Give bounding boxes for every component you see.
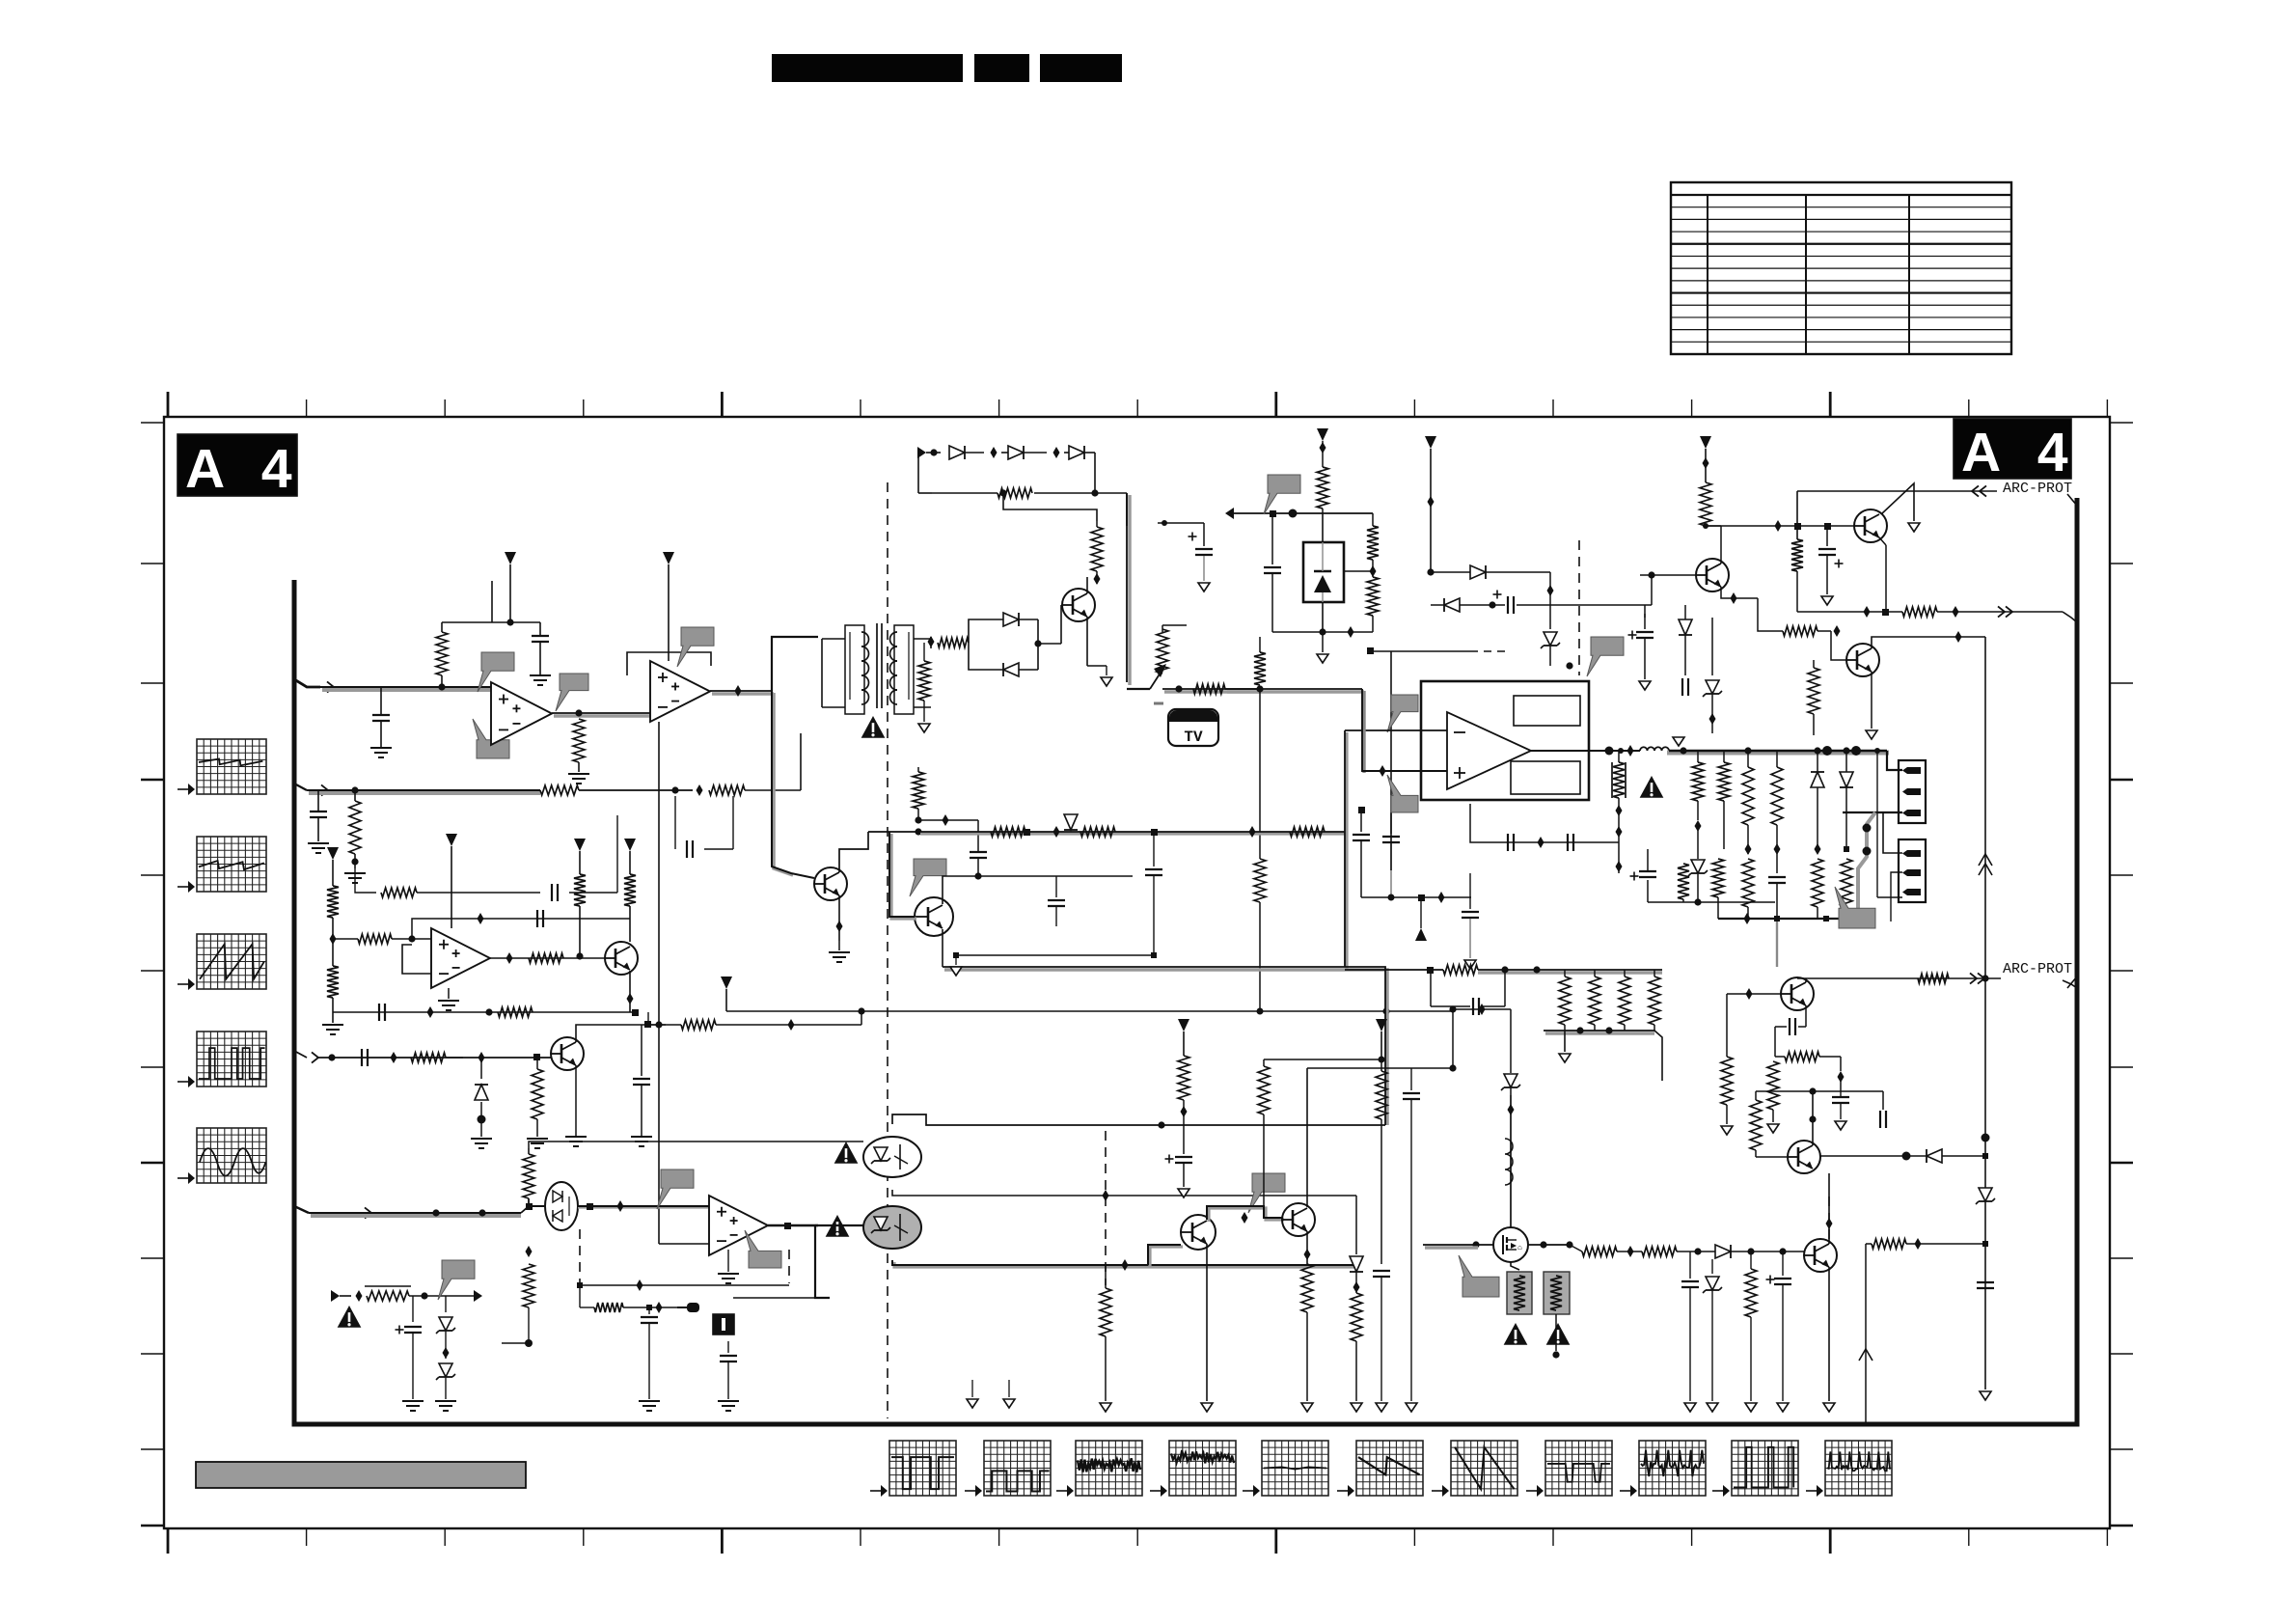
signal ground C19 [1639, 681, 1651, 690]
main output bus [1667, 746, 1889, 756]
resistor R19 horizontal [938, 638, 969, 647]
off-page arrow P3 [327, 847, 339, 886]
wire feedback top loop [442, 581, 540, 635]
capacitor C26 polar [1766, 1248, 1792, 1401]
wire input bus 3 [318, 1057, 551, 1059]
junction P7 net [1489, 601, 1495, 608]
junction U1A out [575, 709, 582, 716]
wire fb sub 2 [439, 815, 617, 901]
ic U4 triangle [1447, 712, 1531, 789]
wire left col [1428, 994, 1453, 1009]
wire q14 base [1727, 988, 1781, 1000]
zener box DZ1 [1303, 513, 1344, 602]
schematic thick border [294, 498, 2077, 1424]
connector X1 [1899, 760, 1926, 823]
signal ground C22 [1376, 1403, 1387, 1412]
title redaction bar 3 [1040, 54, 1122, 82]
waveform scope box W5 [178, 1128, 266, 1184]
warning triangle WT5 [826, 1215, 850, 1237]
flag F15 [1459, 1255, 1499, 1297]
resistor R51 horizontal [1617, 1247, 1677, 1256]
wire C12 tap [1158, 520, 1167, 526]
wire Q9 collector [1207, 1206, 1284, 1224]
wire zener box right [1344, 570, 1373, 572]
signal ground Q3 [1101, 666, 1112, 686]
waveform scope box W3 [178, 934, 266, 990]
resistor R26a [1367, 513, 1379, 567]
ic box U4 [1421, 681, 1589, 800]
wire mid row2 [943, 967, 1189, 970]
wire Q3 emitter [1087, 617, 1107, 666]
wire to I label [677, 1303, 699, 1312]
signal ground R20 [918, 724, 930, 732]
waveform scope box B7 [1432, 1441, 1517, 1497]
wire mid long 1048 [726, 1007, 1453, 1014]
wire acc row [918, 832, 1347, 834]
wire down long [658, 722, 660, 1244]
wire opto1 bottom [892, 1190, 1356, 1201]
ground R7 [322, 1025, 343, 1034]
resistor R29b horizontal [1290, 827, 1325, 837]
zener D22 [1976, 1188, 1995, 1204]
waveform scope box B5 [1243, 1441, 1328, 1497]
resistor R52 [1745, 1252, 1757, 1401]
wire Q14 collector [1805, 978, 1807, 982]
node diode chain entry [917, 447, 941, 458]
wire U4 in minus [1345, 729, 1447, 731]
wire Q6 emitter [1879, 537, 1886, 612]
resistor R39 [1808, 660, 1819, 735]
tv symbol [1168, 709, 1218, 746]
diode D5 [1001, 446, 1060, 459]
transformer TR3 [1544, 1272, 1570, 1314]
wire arc right [1970, 973, 2077, 988]
resistor R15 [523, 1148, 534, 1198]
wire arc line [1797, 975, 2001, 981]
wire Q4 c loop [868, 828, 922, 835]
flag F9 [910, 859, 946, 896]
resistor R44 [1351, 1293, 1362, 1401]
wire low rail drop [1630, 849, 1725, 919]
wire arc res [1918, 974, 1949, 983]
capacitor C16 polar [1493, 591, 1583, 615]
signal ground DZ1 [1317, 654, 1328, 663]
dash link opto [579, 1229, 581, 1283]
wire right col 2058 [1982, 978, 1990, 1389]
wire ARC-PROT top [1797, 485, 1997, 496]
resistor R21 [1091, 521, 1103, 584]
off-page arrow P1 [505, 552, 516, 626]
diode D19 [1715, 1245, 1758, 1258]
signal ground C12 [1198, 583, 1210, 591]
transistor Q13 [1788, 1141, 1820, 1173]
wire U2 minus loop [402, 945, 431, 974]
wire col 1524 [1462, 873, 1479, 969]
capacitor C24 [1431, 970, 1505, 1015]
resistor R37 [1700, 482, 1711, 529]
signal ground lower [1259, 1037, 1261, 1042]
resistor R33 [1742, 751, 1754, 919]
resistor R57 horizontal [1866, 1238, 1985, 1250]
waveform scope box B10 [1712, 1441, 1798, 1497]
wire zener down [1322, 632, 1324, 652]
grid label A4 left [178, 434, 304, 500]
ground R2 [568, 774, 589, 784]
wire q13 to diode [1819, 1152, 1911, 1161]
resistor R1 [436, 622, 448, 687]
resistor R15b [502, 1206, 534, 1347]
wire 1463 col [1410, 1119, 1412, 1401]
signal ground Q8 [1866, 730, 1877, 739]
junction R27 [915, 814, 978, 826]
capacitor C27 [1880, 1091, 1886, 1157]
capacitor C28 [1775, 1018, 1806, 1052]
signal ground C26 [1777, 1403, 1789, 1412]
wire Q5 collector [943, 876, 978, 904]
diode D1 [475, 1052, 488, 1124]
warning triangle WT7 [1546, 1323, 1571, 1345]
svg-text:TV: TV [1184, 729, 1203, 746]
wire to transformer [772, 637, 818, 691]
zener D12 [1688, 860, 1708, 902]
diode D4 [949, 446, 998, 459]
capacitor C13 [1264, 513, 1281, 632]
capacitor C15b [1145, 832, 1162, 955]
junction U1B out [735, 685, 742, 697]
diode D21 [1872, 1149, 1985, 1163]
transformer T1 secondary [890, 625, 931, 714]
resistor R55 horizontal [1775, 1052, 1841, 1061]
capacitor C8 [720, 1341, 737, 1399]
wire Q13 collector [1809, 1091, 1816, 1145]
off-page up arrow P12 [1415, 897, 1427, 941]
wire Q8 base [1818, 631, 1846, 660]
junction R50 [1627, 1246, 1634, 1257]
junction R3 [351, 854, 358, 868]
wire Q10 emitter [1304, 1231, 1311, 1264]
off-page arrow P11 [721, 977, 732, 1011]
node VIN4 entry [294, 1206, 371, 1219]
signal ground C25 [1684, 1403, 1696, 1412]
ground D1 [471, 1119, 492, 1148]
wire opto2 bottom [892, 1259, 1358, 1271]
resistor R31 [1692, 751, 1704, 859]
wire q col [1449, 1004, 1511, 1068]
wire Q6 collector diag [1881, 483, 1914, 521]
resistor R42 [1258, 1059, 1270, 1206]
wire Q13 emitter link [1812, 1169, 1814, 1185]
wire r55 drop [1838, 1057, 1845, 1091]
dashed Q12 [1826, 1197, 1833, 1240]
transformer TR2 [1507, 1272, 1532, 1314]
ruler tick marks top and bottom [168, 392, 2107, 1554]
wire Q3 collector [1087, 573, 1101, 593]
resistor R32 [1718, 751, 1730, 849]
wire to X2 [1858, 812, 1902, 922]
thick bus mid [1162, 685, 1260, 692]
wire drop to pot bus [1126, 493, 1128, 526]
wire bank entry [1385, 1124, 1405, 1126]
wire collector load [598, 1021, 663, 1028]
junction T1 out [928, 636, 935, 648]
diode D11 [1431, 598, 1505, 612]
wire right top [1984, 970, 1986, 978]
waveform scope box W1 [178, 739, 266, 795]
diode D6 [1064, 446, 1095, 459]
capacitor C6 [633, 1025, 650, 1119]
wire Q2 collector [576, 1025, 598, 1042]
wire d18 top [1470, 1009, 1511, 1061]
wire stage link [1528, 1241, 1573, 1248]
wire to Q12 [1758, 1252, 1804, 1255]
wire Q7 emitter [1721, 587, 1758, 604]
mosfet Q11 [1493, 1227, 1528, 1262]
op-amp U2 [431, 928, 490, 988]
warning triangle WT4 [834, 1142, 859, 1164]
flag F6 [745, 1230, 781, 1268]
capacitor C30 [1977, 1282, 1994, 1288]
wire zener drop [1541, 605, 1573, 670]
dashed mid [1105, 1131, 1107, 1285]
wire U2 loop [627, 652, 711, 675]
resistor R43 [1301, 1264, 1313, 1401]
op-amp U1B [650, 661, 710, 722]
flag F3 [473, 719, 509, 758]
wire input bus 1 [320, 687, 491, 690]
resistor R6 horizontal [381, 888, 439, 897]
dashed isolation line [887, 482, 888, 1418]
transistor Q4 [814, 867, 847, 900]
grid label A4 right [1954, 419, 2080, 483]
thick bus 1005 [1384, 970, 1386, 1125]
transistor Q8 [1846, 644, 1879, 676]
zener D14 [1840, 751, 1853, 919]
zener D20 [1703, 1252, 1722, 1401]
off-page arrow P6b [624, 839, 636, 874]
flag F12 [1387, 775, 1418, 812]
waveform scope box W2 [178, 837, 266, 893]
transformer T1 core [877, 623, 882, 708]
wire row 634 [1797, 606, 1902, 618]
capacitor C17 [1768, 877, 1786, 919]
signal ground bank [1559, 1031, 1571, 1062]
ground C3 [308, 843, 329, 853]
ic U4 slot 2 [1511, 761, 1580, 794]
resistor R56 [1767, 1057, 1779, 1122]
off-page arrow P8 [1700, 436, 1711, 482]
signal ground R54 [1721, 1126, 1733, 1135]
wire R42 top [1264, 1057, 1385, 1063]
wire Q12 emitter [1828, 1267, 1830, 1401]
off-page arrow P5 [574, 839, 586, 874]
wire ARC-PROT mid entry [2067, 977, 2077, 988]
wire bus to X1 [1887, 751, 1902, 770]
resistor R14 horizontal [659, 1020, 733, 1030]
signal ground D20 [1707, 1403, 1718, 1412]
warning triangle WT6 [1504, 1323, 1528, 1345]
power arrow left [1225, 508, 1373, 519]
wire chain down right [1034, 453, 1127, 497]
wire input bus 2 [307, 790, 540, 793]
warning triangle WT3 [1640, 776, 1664, 798]
wire Q9 emitter [1206, 1244, 1208, 1401]
pot bus vertical [1127, 493, 1130, 685]
resistor R54 [1721, 1057, 1733, 1124]
resistor R48 [1619, 970, 1630, 1031]
title redaction bar 1 [772, 54, 963, 82]
title redaction bar 2 [974, 54, 1029, 82]
zener D2 [436, 1296, 455, 1359]
waveform scope box B11 [1806, 1441, 1892, 1497]
wire row 634 right [1937, 606, 2063, 618]
signal ground 2058 [1980, 1391, 1991, 1400]
wire Q4 emitter [836, 895, 843, 941]
wire Q12 collector [1828, 1173, 1830, 1244]
svg-text:A 4: A 4 [1961, 422, 2080, 483]
net label ARC-PROT top right [2003, 481, 2072, 497]
ground C9 [402, 1401, 424, 1411]
transistor Q12 [1804, 1239, 1837, 1272]
minus mark [1154, 702, 1163, 705]
resistor R25 [1317, 454, 1328, 513]
diode bridge D8 [969, 619, 1038, 676]
wire to mid [733, 1011, 861, 1031]
resistor R35 [1791, 539, 1803, 612]
signal ground extra1 [967, 1380, 978, 1408]
wire R17 out [409, 1290, 482, 1302]
wire U1B out [710, 691, 774, 694]
wire q12 right link [1836, 1266, 1838, 1268]
wire q14 base l [1726, 994, 1728, 1057]
resistor R7b [327, 966, 339, 1023]
wire Q8 collector [1872, 631, 1985, 648]
flag F14 [1248, 1173, 1285, 1213]
capacitor C22 [1373, 1119, 1390, 1401]
ground C6 [631, 1119, 652, 1146]
wire Q6 base row [1706, 520, 1854, 532]
off-page arrow P10 [1376, 1019, 1387, 1059]
wire U4 in plus [1362, 689, 1447, 777]
wire q14 emitter [1805, 1005, 1807, 1027]
wire U3 minus loop [659, 1243, 709, 1245]
wire mosfet drain [1505, 1095, 1515, 1228]
wire zener box bottom [1272, 602, 1373, 638]
wire lower link [1259, 1036, 1261, 1038]
wire opto1 top [892, 1114, 1385, 1129]
ground Q2 [565, 1119, 587, 1146]
wire Q5 base hook [889, 832, 916, 919]
transistor Q1 [605, 942, 638, 975]
ground C8 [718, 1401, 739, 1411]
wire input bus 4 [309, 1213, 521, 1216]
resistor R10 [624, 874, 636, 942]
capacitor C14 [970, 820, 987, 876]
off-page arrow P9 [1178, 1019, 1189, 1056]
ruler tick marks left and right [141, 423, 2133, 1526]
wire R15 top [529, 1142, 863, 1148]
warning triangle WT1 [338, 1306, 362, 1328]
resistor R40 [1100, 1265, 1111, 1401]
waveform scope box B2 [965, 1441, 1051, 1497]
wire Q8 col down [1979, 637, 1992, 978]
resistor bank top bus [1345, 965, 1662, 975]
capacitor C12 polar [1164, 523, 1213, 581]
signal ground C21 [1178, 1189, 1189, 1197]
waveform scope box B4 [1150, 1441, 1236, 1497]
wire bus2 right [772, 733, 801, 790]
wire Q2 emitter [575, 1065, 577, 1119]
resistor R22 horizontal [1193, 684, 1225, 694]
fusible resistor R17 [365, 1286, 411, 1301]
resistor R38 horizontal [1758, 598, 1841, 637]
capacitor C23 [1403, 1068, 1420, 1119]
wire ARC-PROT top entry [2067, 494, 2077, 506]
capacitor C15 [1048, 876, 1065, 926]
resistor R12 horizontal [411, 1053, 463, 1062]
flag F8 [1264, 475, 1300, 514]
signal ground R44 [1351, 1403, 1362, 1412]
transistor Q3 [1062, 589, 1095, 621]
warning triangle WT2 [861, 716, 886, 738]
resistor R49 [1649, 970, 1660, 1031]
ground R13 [527, 1139, 548, 1148]
flag F13 [1835, 887, 1875, 928]
wire low rail [1648, 898, 1856, 967]
diode D15 [1679, 605, 1692, 675]
wire Q10 collector [1264, 1068, 1307, 1207]
wire C27 [1882, 1119, 1884, 1157]
wire bus1005 [1186, 966, 1188, 968]
svg-text:ARC-PROT: ARC-PROT [2003, 961, 2072, 977]
resistor R41 [1178, 1056, 1189, 1125]
wire U3 out [768, 1223, 818, 1229]
capacitor C2 [532, 636, 549, 675]
off-page arrow P6 [1317, 428, 1328, 454]
capacitor C10 [1353, 807, 1370, 897]
signal ground R40 [1100, 1403, 1111, 1412]
node VIN1 entry [294, 679, 334, 693]
node VIN2 entry [294, 784, 328, 796]
wire Q13 base [1756, 1156, 1788, 1158]
resistor R50 horizontal [1570, 1245, 1617, 1256]
wire up arrow [1859, 1244, 1872, 1422]
resistor R26b [1367, 565, 1379, 632]
signal ground C18 [1821, 596, 1833, 605]
off-page arrow P2 [663, 552, 674, 661]
connector X2 [1899, 839, 1926, 902]
off-page arrow P7 [1425, 436, 1436, 521]
capacitor C21 polar [1165, 1125, 1193, 1187]
diode D9 [1064, 814, 1078, 830]
resistor R53 [1750, 1091, 1762, 1157]
wire U3 fb low [577, 1279, 789, 1291]
wire top link q10 [1307, 1064, 1457, 1071]
transistor Q14 [1781, 977, 1814, 1010]
dashed link D11 [1367, 540, 1579, 870]
wire R51 out [1677, 1248, 1715, 1254]
zener D3 [436, 1363, 455, 1399]
resistor R2 [573, 719, 585, 772]
resistor R47 [1589, 970, 1600, 1031]
zener D16 [1703, 618, 1722, 733]
resistor R46 [1559, 970, 1571, 1031]
junction bus mid [1225, 685, 1364, 692]
wire bus to X1 pin3 [1843, 748, 1902, 897]
transistor Q2 [551, 1037, 584, 1070]
wire bridge out [1034, 640, 1061, 646]
transistor Q7 [1696, 559, 1729, 591]
transistor Q9 [1181, 1215, 1216, 1250]
